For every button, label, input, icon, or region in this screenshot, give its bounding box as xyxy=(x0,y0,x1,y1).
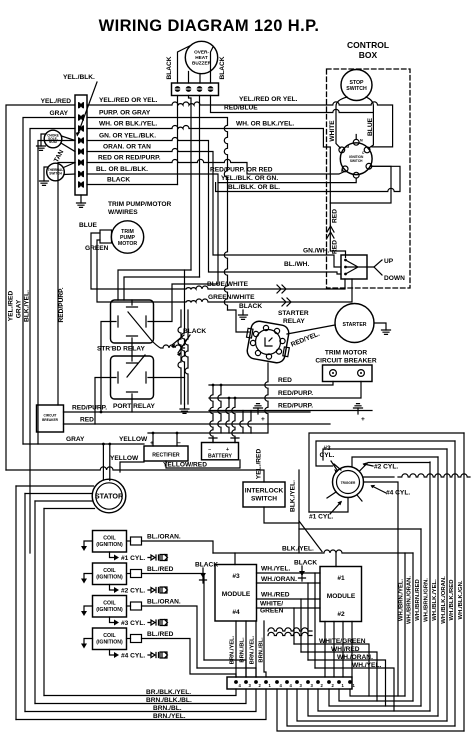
wire wh./red lower xyxy=(301,652,377,701)
stator leads left xyxy=(16,486,95,509)
svg-text:RED: RED xyxy=(332,209,339,223)
svg-text:YELLOW: YELLOW xyxy=(119,436,148,443)
wire buzzer t1 down xyxy=(177,96,179,185)
svg-text:BL./RED: BL./RED xyxy=(147,566,174,573)
left nest verticals xyxy=(16,486,44,720)
wire gn. or yel./blk. row xyxy=(87,138,341,275)
svg-text:WHITE: WHITE xyxy=(329,120,336,142)
over-heat buzzer xyxy=(185,41,217,73)
svg-text:WH./BLK./GN.: WH./BLK./GN. xyxy=(458,580,464,619)
svg-text:#1 CYL.: #1 CYL. xyxy=(121,555,145,562)
svg-text:BREAKER: BREAKER xyxy=(42,418,58,422)
svg-text:SWITCH: SWITCH xyxy=(251,496,277,503)
wire to starter relay top xyxy=(228,310,250,332)
svg-text:WH. OR BLK./YEL.: WH. OR BLK./YEL. xyxy=(99,121,157,128)
wire white/green module link xyxy=(257,607,321,609)
stair verticals xyxy=(294,573,315,668)
wire wh./oran. module link xyxy=(257,582,321,584)
svg-text:YEL./RED: YEL./RED xyxy=(41,98,72,105)
svg-text:BL./RED: BL./RED xyxy=(147,631,174,638)
svg-text:(IGNITION): (IGNITION) xyxy=(96,640,123,646)
svg-text:GN./WH.: GN./WH. xyxy=(303,248,330,255)
svg-text:GREEN: GREEN xyxy=(260,608,284,615)
svg-text:WH. OR BLK./YEL.: WH. OR BLK./YEL. xyxy=(236,121,294,128)
svg-text:SWITCH: SWITCH xyxy=(49,172,62,176)
svg-text:YELLOW/RED: YELLOW/RED xyxy=(163,462,207,469)
svg-text:−: − xyxy=(208,447,211,453)
wire starter relay bottom xyxy=(251,363,268,433)
svg-text:(IGNITION): (IGNITION) xyxy=(96,607,123,613)
squiggle column wires xyxy=(178,310,181,404)
wire blk./yel. left column xyxy=(30,129,75,554)
wire oran. or tan row xyxy=(87,149,341,268)
svg-text:BRN./BL.: BRN./BL. xyxy=(153,705,182,712)
wire gray left column xyxy=(23,118,75,445)
wire wh./yel. module link xyxy=(257,572,321,574)
module B bottom verticals xyxy=(325,622,352,678)
wire relay B bottom xyxy=(131,399,133,412)
stop switch xyxy=(341,70,372,101)
wire yel./red to interlock xyxy=(6,467,264,482)
svg-text:TRIGGER: TRIGGER xyxy=(341,481,356,485)
svg-text:BL./BLK. OR BL.: BL./BLK. OR BL. xyxy=(228,184,280,191)
svg-text:#2 CYL.: #2 CYL. xyxy=(121,588,145,595)
svg-text:BL. OR BL./BLK.: BL. OR BL./BLK. xyxy=(96,166,148,173)
svg-text:STARTER: STARTER xyxy=(342,322,366,328)
svg-text:#4 CYL.: #4 CYL. xyxy=(121,653,145,660)
terminal strip TL xyxy=(75,95,87,195)
ground below strip xyxy=(80,195,82,203)
svg-text:+: + xyxy=(261,416,265,423)
svg-text:YEL./BLK.: YEL./BLK. xyxy=(63,74,95,81)
svg-text:WHITE/GREEN: WHITE/GREEN xyxy=(319,638,366,645)
chevron on red wire xyxy=(327,226,334,238)
control box dashed border xyxy=(327,69,411,288)
svg-text:BLUE: BLUE xyxy=(79,222,98,229)
ignition switch xyxy=(340,143,372,175)
wire wh./yel. lower xyxy=(315,668,394,711)
svg-text:PORT RELAY: PORT RELAY xyxy=(113,403,155,410)
svg-text:(IGNITION): (IGNITION) xyxy=(96,575,123,581)
wire wh./red module link xyxy=(257,598,321,600)
svg-text:MODULE: MODULE xyxy=(327,593,356,600)
wire h433 xyxy=(148,432,251,434)
svg-text:DOWN: DOWN xyxy=(384,275,405,282)
svg-text:BOX: BOX xyxy=(359,50,378,60)
battery xyxy=(202,443,239,460)
wire stop switch left lead (white) xyxy=(336,97,347,148)
module A bottom verticals xyxy=(236,621,266,677)
svg-text:RED/PURP.: RED/PURP. xyxy=(278,403,313,410)
wire buzzer t2 down xyxy=(189,96,192,271)
wire gray to stator xyxy=(23,443,144,445)
svg-text:RED/PURP.: RED/PURP. xyxy=(72,405,107,412)
wire yel./red left column xyxy=(6,105,75,470)
svg-text:WH./YEL.: WH./YEL. xyxy=(352,662,381,669)
wire white/green lower xyxy=(294,644,369,696)
svg-text:BLK./YEL.: BLK./YEL. xyxy=(290,480,297,512)
wire relay A-B link xyxy=(131,343,133,356)
wire red/purp. from breaker xyxy=(64,411,311,413)
wire yel./red or yel. row xyxy=(87,102,393,147)
wire coil 3 out xyxy=(142,606,198,668)
wire relay A right xyxy=(154,183,219,322)
svg-text:#1: #1 xyxy=(337,575,345,582)
svg-text:BRN./BL.: BRN./BL. xyxy=(240,637,246,663)
svg-text:RED: RED xyxy=(332,240,339,254)
wire blue/white run xyxy=(91,233,345,289)
svg-text:BRN./YEL.: BRN./YEL. xyxy=(153,713,186,720)
svg-text:BLACK: BLACK xyxy=(183,328,206,335)
svg-text:SWITCH: SWITCH xyxy=(350,159,363,163)
wire blk./yel. run over modules xyxy=(213,550,413,553)
svg-text:GN. OR YEL./BLK.: GN. OR YEL./BLK. xyxy=(99,133,156,140)
thermal switch xyxy=(47,163,65,181)
wire red from breaker xyxy=(64,423,331,425)
svg-text:#2: #2 xyxy=(337,611,345,618)
svg-text:−: − xyxy=(177,440,181,447)
wire starter ground xyxy=(374,323,386,330)
svg-text:#2 CYL.: #2 CYL. xyxy=(374,464,398,471)
wire relay B right to column xyxy=(154,377,185,379)
trim pump motor xyxy=(111,221,143,253)
svg-text:WH./BLK./YEL.: WH./BLK./YEL. xyxy=(432,579,438,621)
svg-text:WH./RED: WH./RED xyxy=(331,646,360,653)
wire stop switch right lead (blue) xyxy=(366,97,373,148)
hump pair wires xyxy=(268,628,312,631)
svg-text:BLACK: BLACK xyxy=(239,303,262,310)
starter relay xyxy=(246,320,290,364)
bottom left stator lines xyxy=(16,689,266,720)
buzzer leads xyxy=(178,46,214,83)
svg-text:#3: #3 xyxy=(323,445,331,452)
wire y477 humps over verticals xyxy=(398,474,470,477)
port relay xyxy=(111,356,154,399)
interlock switch xyxy=(243,482,285,507)
svg-text:STR'BD RELAY: STR'BD RELAY xyxy=(97,346,145,353)
coil 1 xyxy=(93,531,127,553)
ground above battery xyxy=(257,408,259,414)
svg-text:COIL: COIL xyxy=(103,601,116,607)
svg-text:OVER-: OVER- xyxy=(194,50,209,55)
svg-text:+: + xyxy=(226,447,229,453)
trigger leads xyxy=(309,457,438,696)
wire left column 4 xyxy=(38,141,75,445)
wire wh./oran. lower xyxy=(308,660,386,706)
wire buzzer t4 to red/blue xyxy=(211,96,374,113)
up/down arrows xyxy=(374,260,382,275)
wire bl./blk. or bl. xyxy=(216,166,400,191)
svg-text:COIL: COIL xyxy=(103,633,116,639)
svg-text:BLACK: BLACK xyxy=(166,56,173,79)
svg-text:WH./BLK./ORAN.: WH./BLK./ORAN. xyxy=(441,576,447,624)
svg-text:CIRCUIT BREAKER: CIRCUIT BREAKER xyxy=(315,358,376,365)
wire red/purp. run 2 xyxy=(209,410,372,412)
svg-text:BRN./BL.: BRN./BL. xyxy=(259,637,265,663)
svg-text:INTERLOCK: INTERLOCK xyxy=(245,488,284,495)
svg-text:#3: #3 xyxy=(232,573,240,580)
svg-text:TRIM PUMP/MOTOR: TRIM PUMP/MOTOR xyxy=(108,201,171,208)
svg-text:BLACK: BLACK xyxy=(219,56,226,79)
svg-text:RED/PURP. OR RED: RED/PURP. OR RED xyxy=(210,167,273,174)
svg-text:NOID: NOID xyxy=(49,140,58,144)
svg-text:GREEN/WHITE: GREEN/WHITE xyxy=(208,294,255,301)
svg-text:UP: UP xyxy=(384,258,394,265)
svg-text:#4: #4 xyxy=(232,609,240,616)
svg-text:WH./BLK./RED: WH./BLK./RED xyxy=(449,580,455,621)
svg-text:STATOR: STATOR xyxy=(95,492,124,501)
svg-text:RED/PURP.: RED/PURP. xyxy=(278,390,313,397)
module #3/#4 xyxy=(215,565,257,622)
svg-text:RED/PURP.: RED/PURP. xyxy=(58,287,65,322)
svg-text:#3 CYL.: #3 CYL. xyxy=(121,620,145,627)
wire red ignition to trim switch xyxy=(330,166,391,203)
svg-text:GRAY: GRAY xyxy=(16,299,23,318)
wire stator top lead xyxy=(103,444,109,481)
svg-text:WH./BRN./RED: WH./BRN./RED xyxy=(415,579,421,621)
coil 4 xyxy=(93,628,127,650)
svg-text:YEL./RED OR YEL.: YEL./RED OR YEL. xyxy=(99,97,158,104)
svg-text:MOTOR: MOTOR xyxy=(118,241,137,247)
svg-text:WH./BRN./YEL.: WH./BRN./YEL. xyxy=(399,579,405,622)
svg-text:PURP. OR GRAY: PURP. OR GRAY xyxy=(99,110,151,117)
wire wh. or blk./yel. row xyxy=(87,126,346,258)
svg-text:COIL: COIL xyxy=(103,568,116,574)
svg-text:CONTROL: CONTROL xyxy=(347,40,389,50)
svg-text:BUZZER: BUZZER xyxy=(192,61,212,66)
svg-text:RED: RED xyxy=(278,377,292,384)
svg-text:WH./RED: WH./RED xyxy=(261,592,290,599)
wire black row xyxy=(87,184,178,186)
wire coil 2 out xyxy=(142,574,205,661)
svg-text:BRN./YEL.: BRN./YEL. xyxy=(250,635,256,664)
ground below column xyxy=(184,404,186,409)
wire starter relay to starter xyxy=(287,325,335,334)
starter xyxy=(335,304,374,343)
svg-text:GRAY: GRAY xyxy=(50,110,69,117)
wire bl. or bl./blk. row xyxy=(87,174,356,183)
wire purp. or gray row xyxy=(87,118,228,311)
wire relay A top-left loop xyxy=(118,270,191,300)
buzzer terminal strip xyxy=(172,83,219,96)
wire coil 4 out xyxy=(142,639,237,678)
svg-text:BR./BLK./YEL.: BR./BLK./YEL. xyxy=(146,689,191,696)
str'bd relay xyxy=(111,300,154,343)
trigger xyxy=(333,467,364,498)
coil 2 xyxy=(93,563,127,585)
svg-text:YEL./RED OR YEL.: YEL./RED OR YEL. xyxy=(239,96,298,103)
svg-text:GRAY: GRAY xyxy=(66,436,85,443)
svg-text:CYL.: CYL. xyxy=(319,452,334,459)
trigger loop wires xyxy=(309,433,464,512)
wire red/purp. left column xyxy=(58,163,75,406)
wire relay A top loop 2 xyxy=(124,277,200,300)
stator xyxy=(92,479,126,513)
svg-text:RECTIFIER: RECTIFIER xyxy=(152,453,180,459)
svg-text:TRIM MOTOR: TRIM MOTOR xyxy=(325,350,368,357)
circuit breaker xyxy=(37,405,64,432)
svg-text:WH./BRN./GRN.: WH./BRN./GRN. xyxy=(424,578,430,622)
wires coil outs to bottom xyxy=(197,660,256,677)
wire yellow 2 xyxy=(120,462,144,472)
svg-text:WH./ORAN.: WH./ORAN. xyxy=(261,576,297,583)
wire red run xyxy=(209,382,333,386)
bottom right nested brackets xyxy=(277,689,464,731)
svg-text:CIRCUIT: CIRCUIT xyxy=(44,414,57,418)
wire relay A left down xyxy=(101,322,111,413)
wire relay B left xyxy=(95,378,111,425)
wire green/white run xyxy=(97,240,352,302)
wire interlock bottom xyxy=(264,507,299,523)
trim switch xyxy=(341,255,367,279)
svg-text:WH./YEL.: WH./YEL. xyxy=(261,566,290,573)
svg-text:BLACK: BLACK xyxy=(107,177,130,184)
svg-text:BRN./BLK./BL.: BRN./BLK./BL. xyxy=(146,697,192,704)
wire red/purp. run 1 xyxy=(209,382,361,399)
svg-text:BL./ORAN.: BL./ORAN. xyxy=(147,599,181,606)
svg-text:RED: RED xyxy=(80,417,94,424)
svg-text:ORAN. OR TAN: ORAN. OR TAN xyxy=(103,144,151,151)
svg-text:BLK./YEL.: BLK./YEL. xyxy=(24,290,31,322)
svg-text:BLUE: BLUE xyxy=(367,117,374,136)
svg-text:BLK./YEL.: BLK./YEL. xyxy=(282,546,314,553)
wire coil 1 out xyxy=(142,541,214,553)
svg-text:BLACK: BLACK xyxy=(294,560,317,567)
choke solenoid xyxy=(44,130,62,148)
svg-text:COIL: COIL xyxy=(103,536,116,542)
svg-text:STARTER: STARTER xyxy=(278,310,309,317)
svg-text:BL./WH.: BL./WH. xyxy=(284,261,309,268)
svg-text:WH./BRN./ORAN.: WH./BRN./ORAN. xyxy=(407,576,413,624)
wire yellow/red xyxy=(166,460,240,468)
svg-text:MODULE: MODULE xyxy=(222,591,251,598)
svg-text:#1 CYL.: #1 CYL. xyxy=(309,514,333,521)
svg-text:BATTERY: BATTERY xyxy=(208,454,232,460)
svg-text:YELLOW: YELLOW xyxy=(110,455,139,462)
svg-text:YEL./RED: YEL./RED xyxy=(256,449,263,480)
svg-text:HEAT: HEAT xyxy=(195,55,208,60)
wire battery feeds verticals xyxy=(210,385,213,442)
wire blk./yel. vertical xyxy=(298,470,300,553)
svg-text:WHITE/: WHITE/ xyxy=(260,601,283,608)
svg-text:RELAY: RELAY xyxy=(283,318,305,325)
svg-text:M: M xyxy=(347,145,350,149)
svg-text:(IGNITION): (IGNITION) xyxy=(96,542,123,548)
svg-text:WIRING DIAGRAM 120 H.P.: WIRING DIAGRAM 120 H.P. xyxy=(99,17,320,35)
tall vertical wires right xyxy=(405,433,464,731)
svg-text:YEL./RED: YEL./RED xyxy=(8,291,15,322)
svg-text:#4 CYL.: #4 CYL. xyxy=(386,490,410,497)
coil 3 xyxy=(93,596,127,618)
svg-text:+: + xyxy=(361,416,365,423)
module #1/#2 xyxy=(320,567,362,622)
svg-text:+: + xyxy=(150,440,154,447)
wire diagonal to modules xyxy=(299,521,322,552)
svg-text:RED OR RED/PURP.: RED OR RED/PURP. xyxy=(98,155,161,162)
ground near starter relay xyxy=(242,310,244,315)
bottom terminal strip xyxy=(227,677,352,689)
rectifier xyxy=(144,446,188,461)
wire buzzer t3 down xyxy=(199,96,201,278)
wire red or red/purp. row xyxy=(87,159,345,174)
svg-text:W/WIRES: W/WIRES xyxy=(108,209,138,216)
svg-text:YEL./BLK. OR GN.: YEL./BLK. OR GN. xyxy=(221,175,278,182)
svg-text:BRN./YEL.: BRN./YEL. xyxy=(230,635,236,664)
svg-text:BL./ORAN.: BL./ORAN. xyxy=(147,534,181,541)
svg-text:M: M xyxy=(360,139,363,143)
svg-text:SWITCH: SWITCH xyxy=(346,86,367,92)
